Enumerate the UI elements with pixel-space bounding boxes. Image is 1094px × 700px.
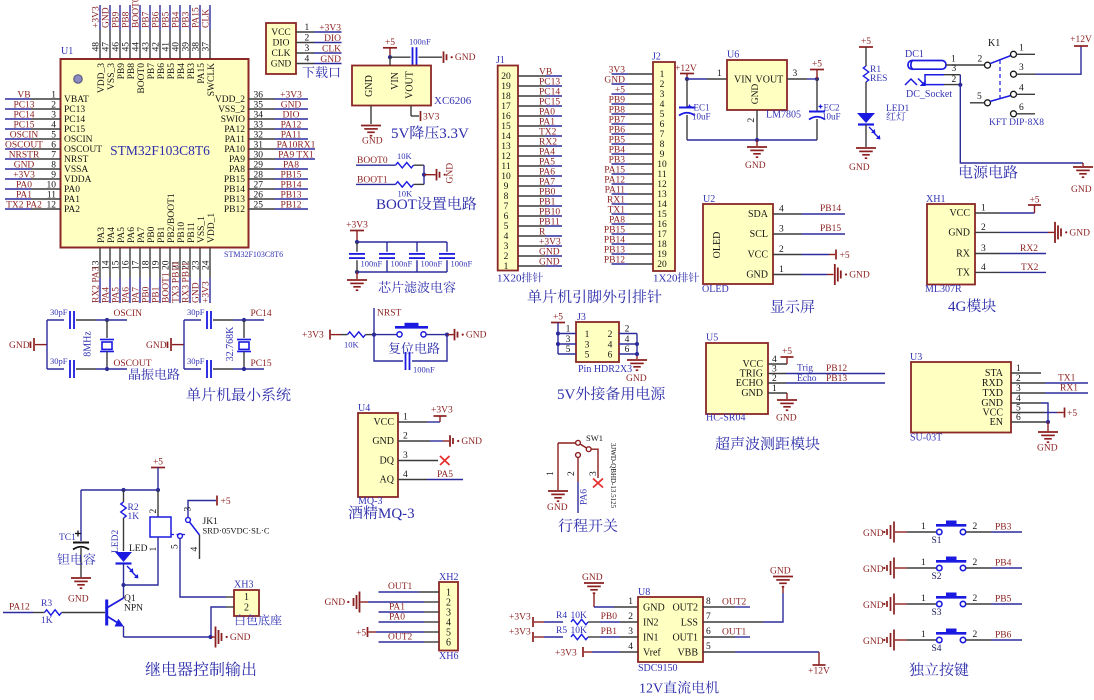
- node reset junction right: [445, 333, 449, 337]
- svg-text:+5: +5: [153, 458, 163, 468]
- svg-text:GND: GND: [863, 601, 884, 611]
- node crystal bottom: [105, 367, 109, 371]
- svg-text:10K: 10K: [344, 340, 360, 350]
- node J3 right 2: [635, 352, 639, 356]
- svg-text:2: 2: [504, 252, 509, 262]
- label reset circuit title: [389, 342, 401, 354]
- svg-text:GND: GND: [320, 55, 341, 65]
- U1 top pin 43 PB7 wire: [149, 5, 151, 30]
- svg-text:8: 8: [51, 161, 56, 171]
- node emitter bus: [208, 635, 212, 639]
- svg-text:HC-SR04: HC-SR04: [706, 413, 745, 424]
- capacitor 30pF bottom: [206, 360, 208, 378]
- svg-text:16: 16: [501, 112, 511, 122]
- svg-text:+3V3: +3V3: [280, 91, 302, 101]
- J1 pin 3 wire: [518, 245, 546, 247]
- U1 top pin 45 PB8 wire: [129, 5, 131, 30]
- node U6 output: [815, 77, 819, 81]
- svg-text:36: 36: [254, 91, 264, 101]
- J1 pin 5 wire: [518, 225, 546, 227]
- svg-text:1: 1: [566, 325, 571, 335]
- svg-text:15: 15: [111, 260, 121, 270]
- label power circuit title: [960, 165, 973, 178]
- svg-text:VDD_2: VDD_2: [215, 95, 245, 105]
- wire U5 TRIG to PB12: [768, 373, 786, 375]
- svg-text:DC1: DC1: [905, 49, 924, 60]
- svg-text:7: 7: [504, 202, 509, 212]
- svg-text:8: 8: [706, 597, 711, 607]
- wire gnd stem power circuit: [1082, 163, 1084, 166]
- svg-text:41: 41: [162, 42, 172, 52]
- svg-text:GND: GND: [582, 573, 603, 583]
- node J3 left 2: [556, 342, 560, 346]
- svg-text:GND: GND: [626, 374, 647, 384]
- svg-text:OUT1: OUT1: [722, 628, 747, 638]
- svg-text:PC15: PC15: [539, 98, 560, 108]
- svg-text:2: 2: [567, 471, 577, 476]
- download port pin 3 wire: [296, 52, 314, 54]
- svg-text:1: 1: [921, 630, 926, 640]
- U1 right pin 36 VDD_2 wire: [249, 98, 276, 100]
- svg-text:VIN: VIN: [734, 75, 752, 86]
- svg-text:5: 5: [504, 222, 509, 232]
- svg-text:VSS_1: VSS_1: [197, 216, 207, 243]
- U1 bottom pin 14 PA4 wire: [109, 248, 111, 279]
- resistor R_reset 10K: [341, 334, 348, 336]
- wire U8 OUT1: [703, 636, 735, 638]
- label relay control title: [145, 662, 160, 676]
- svg-text:PA5: PA5: [437, 470, 453, 480]
- svg-text:VCC: VCC: [747, 250, 768, 261]
- J1 pin 2 wire: [518, 255, 546, 257]
- svg-text:U4: U4: [358, 403, 370, 414]
- svg-text:11: 11: [47, 191, 56, 201]
- download port pin 1 wire: [296, 31, 314, 33]
- svg-text:1: 1: [1019, 44, 1024, 54]
- wire JK1 pin5 to XH3: [180, 538, 226, 597]
- svg-text:7: 7: [706, 612, 711, 622]
- svg-text:OUT2: OUT2: [672, 603, 698, 614]
- svg-text:3: 3: [589, 471, 599, 476]
- J2 pin 17 wire: [628, 233, 653, 235]
- J2 pin 13 wire: [628, 193, 653, 195]
- svg-text:14: 14: [101, 260, 111, 270]
- ground sideways at boot: [436, 169, 438, 181]
- svg-text:PB4: PB4: [609, 146, 626, 156]
- svg-text:15: 15: [657, 210, 667, 220]
- svg-text:SCL: SCL: [750, 229, 768, 240]
- U1 left pin 8 VSSA wire: [5, 168, 31, 170]
- svg-text:RX2: RX2: [539, 138, 557, 148]
- svg-text:RES: RES: [870, 74, 887, 84]
- svg-text:DIO: DIO: [324, 34, 341, 44]
- svg-text:XH1: XH1: [926, 194, 945, 205]
- svg-text:NRST: NRST: [377, 309, 401, 319]
- svg-text:37: 37: [202, 42, 212, 52]
- J2 pin 14 wire: [628, 203, 653, 205]
- ground hatch at U6: [747, 146, 767, 148]
- svg-text:+3V3: +3V3: [201, 281, 211, 303]
- svg-text:GND: GND: [863, 637, 884, 647]
- svg-text:4: 4: [981, 263, 986, 273]
- svg-text:RX2: RX2: [1020, 244, 1038, 254]
- svg-text:2: 2: [779, 245, 784, 255]
- svg-text:RX1: RX1: [1060, 384, 1078, 394]
- svg-text:27: 27: [254, 181, 264, 191]
- label chip filter caps: [379, 281, 391, 293]
- svg-text:6: 6: [608, 351, 613, 361]
- wire XH3 pin2: [226, 606, 234, 608]
- svg-text:OUT1: OUT1: [388, 582, 413, 592]
- svg-text:8: 8: [504, 192, 509, 202]
- svg-text:VDD_3: VDD_3: [97, 63, 107, 93]
- wire SW1 pin2 to PA6: [577, 457, 579, 481]
- U1 right pin 28 PB15 wire: [249, 178, 276, 180]
- svg-text:PA6: PA6: [121, 287, 131, 303]
- svg-text:TX3 PB10: TX3 PB10: [171, 262, 181, 303]
- wire U4 DQ no-connect: [398, 460, 438, 462]
- power +5 at U3 VCC: [1011, 412, 1045, 414]
- svg-text:J2: J2: [652, 52, 661, 63]
- resistor R3 1K: [45, 610, 62, 615]
- ground hatch at LED1: [856, 147, 876, 149]
- label ultrasonic title: [715, 436, 729, 450]
- svg-text:PB7: PB7: [147, 63, 157, 80]
- svg-text:30pF: 30pF: [50, 356, 68, 366]
- connector P1 download port box: [266, 23, 296, 74]
- svg-text:GND: GND: [325, 598, 346, 608]
- svg-text:BOOT0: BOOT0: [132, 0, 142, 28]
- button S1: [907, 531, 936, 533]
- svg-text:PB9: PB9: [112, 11, 122, 28]
- wire U3 GND to EN: [1011, 402, 1041, 404]
- svg-text:PB2/BOOT1: PB2/BOOT1: [167, 193, 177, 243]
- svg-text:PB3: PB3: [187, 63, 197, 80]
- wire S4 to PB6: [966, 639, 991, 641]
- svg-text:3: 3: [779, 225, 784, 235]
- svg-text:+3V3: +3V3: [509, 628, 531, 638]
- svg-text:4: 4: [625, 335, 630, 345]
- svg-text:DC_Socket: DC_Socket: [906, 89, 952, 100]
- svg-text:XH2: XH2: [439, 572, 458, 583]
- svg-text:PB0: PB0: [141, 286, 151, 303]
- svg-text:U3: U3: [910, 352, 922, 363]
- J1 pin 9 wire: [518, 185, 546, 187]
- wire XH2 pin1 OUT1: [420, 591, 440, 593]
- svg-text:PB6: PB6: [152, 11, 162, 28]
- svg-text:PB8: PB8: [127, 63, 137, 80]
- ground sideways at XH2: [359, 592, 361, 613]
- svg-text:PB12: PB12: [604, 256, 625, 266]
- svg-text:PA9: PA9: [229, 155, 245, 165]
- svg-text:1: 1: [305, 23, 310, 33]
- svg-text:PA2: PA2: [64, 205, 80, 215]
- capacitor C1 100nF filter: [356, 242, 358, 252]
- wire U6 bottom bus: [687, 139, 817, 141]
- svg-text:5: 5: [660, 110, 665, 120]
- U1 bottom pin 17 PA7 wire: [139, 248, 141, 279]
- label white socket: [236, 614, 245, 625]
- svg-text:LSS: LSS: [681, 618, 698, 629]
- svg-text:VSS_3: VSS_3: [107, 63, 117, 90]
- node U6 gnd: [755, 138, 759, 142]
- svg-text:PA12: PA12: [224, 125, 245, 135]
- svg-text:4: 4: [660, 100, 665, 110]
- svg-text:1: 1: [504, 262, 509, 272]
- U1 top pin 40 PB4 wire: [179, 5, 181, 30]
- svg-text:TX1: TX1: [1058, 374, 1076, 384]
- svg-text:+3V3: +3V3: [431, 406, 453, 416]
- svg-text:17: 17: [501, 102, 511, 112]
- wire U6 pin2 stem: [756, 110, 758, 140]
- svg-text:3: 3: [585, 341, 590, 351]
- U1 top pin 37 SWCLK wire: [209, 5, 211, 30]
- svg-text:PA1: PA1: [539, 118, 555, 128]
- svg-text:OSCOUT: OSCOUT: [64, 145, 102, 155]
- U1 right pin 29 PA8 wire: [249, 168, 276, 170]
- svg-text:6: 6: [504, 212, 509, 222]
- svg-text:PA5: PA5: [539, 158, 555, 168]
- wire DC1 pin3: [944, 74, 960, 76]
- wire BOOT1: [356, 183, 396, 185]
- wire GND pin of XC6206: [370, 106, 372, 125]
- svg-text:PA12: PA12: [281, 121, 302, 131]
- node VIN junction: [388, 55, 392, 59]
- U1 top pin 39 PB3 wire: [189, 5, 191, 30]
- svg-text:KFT DIP·8X8: KFT DIP·8X8: [989, 118, 1044, 128]
- svg-text:NPN: NPN: [124, 604, 143, 614]
- crystal 8MHz: [106, 320, 108, 338]
- svg-text:30: 30: [254, 151, 264, 161]
- svg-text:GND: GND: [741, 388, 763, 399]
- svg-text:Q1: Q1: [124, 594, 136, 604]
- J2 pin 16 wire: [628, 223, 653, 225]
- U1 bottom pin 13 PA3 wire: [99, 248, 101, 279]
- J3 right pin 2 wire: [619, 333, 637, 335]
- ground sideways at U4 GND: [398, 440, 430, 442]
- node reset junction left: [372, 333, 376, 337]
- connector J1 1x20 header box: [498, 66, 518, 271]
- svg-text:1: 1: [546, 471, 556, 476]
- node filter bottom: [355, 270, 359, 274]
- svg-text:4: 4: [305, 55, 310, 65]
- svg-text:IN1: IN1: [643, 633, 659, 644]
- svg-text:+5: +5: [812, 60, 822, 70]
- wire boot junction vertical: [423, 165, 425, 184]
- U1 top pin 42 PB6 wire: [159, 5, 161, 30]
- connector XH2 box: [439, 582, 458, 651]
- svg-text:1: 1: [51, 91, 56, 101]
- wire crystal top branch: [184, 319, 201, 321]
- wire U6 gnd stem: [756, 140, 758, 146]
- svg-text:TX2 PA2: TX2 PA2: [6, 201, 42, 211]
- svg-text:GND: GND: [281, 101, 302, 111]
- svg-text:48: 48: [92, 42, 102, 52]
- svg-text:DIO: DIO: [283, 111, 300, 121]
- svg-text:+3V3: +3V3: [319, 24, 341, 34]
- svg-text:GND: GND: [372, 436, 394, 447]
- ground sideways at U2 GND: [802, 274, 828, 276]
- U1 bottom pin 20 PB2/BOOT1 wire: [169, 248, 171, 279]
- wire U8 LSS to gnd: [703, 621, 763, 623]
- svg-text:3V3: 3V3: [609, 66, 626, 76]
- svg-text:40: 40: [172, 42, 182, 52]
- wire crystal left bus: [46, 320, 48, 369]
- wire DC1 pin1 to K1: [946, 64, 985, 66]
- svg-text:AQ: AQ: [380, 475, 395, 486]
- svg-text:VIN: VIN: [390, 72, 401, 90]
- svg-text:PB0: PB0: [539, 188, 556, 198]
- svg-text:5: 5: [171, 544, 181, 549]
- svg-text:3: 3: [184, 507, 194, 512]
- resistor R_boot1 10K: [396, 182, 414, 187]
- resistor R5 10K: [571, 634, 588, 639]
- node LED2 collector: [121, 583, 125, 587]
- capacitor 100nF reset: [374, 335, 403, 361]
- U1 top pin 38 PA15 wire: [199, 5, 201, 30]
- wire pin3 corner: [959, 75, 961, 85]
- svg-text:CLK: CLK: [272, 49, 291, 59]
- svg-text:9: 9: [51, 171, 56, 181]
- svg-text:PA11: PA11: [225, 135, 246, 145]
- svg-text:4: 4: [628, 642, 633, 652]
- svg-text:19: 19: [501, 82, 511, 92]
- svg-text:3: 3: [566, 335, 571, 345]
- svg-text:28: 28: [254, 171, 264, 181]
- svg-text:GND: GND: [751, 84, 761, 105]
- svg-text:PB1: PB1: [539, 198, 556, 208]
- svg-text:PB6: PB6: [609, 126, 626, 136]
- wire DC1 pin2: [944, 84, 960, 86]
- svg-text:12: 12: [47, 201, 57, 211]
- wire VIN stem: [389, 57, 391, 65]
- svg-text:18: 18: [141, 260, 151, 270]
- svg-text:PB6: PB6: [157, 63, 167, 80]
- module U5 HC-SR04 box: [706, 343, 768, 414]
- svg-text:1: 1: [951, 55, 956, 65]
- J2 pin 15 wire: [628, 213, 653, 215]
- svg-text:VDDA: VDDA: [64, 175, 92, 185]
- ground sideways at XC6206 input: [443, 51, 445, 63]
- svg-text:PB15: PB15: [820, 224, 841, 234]
- svg-text:1K: 1K: [128, 512, 140, 522]
- wire U6 pin3 out: [787, 78, 807, 80]
- svg-text:100nF: 100nF: [409, 37, 431, 47]
- U1 top pin 47 VSS_3 wire: [109, 5, 111, 30]
- svg-text:19: 19: [151, 260, 161, 270]
- svg-text:3: 3: [305, 44, 310, 54]
- svg-text:34: 34: [254, 111, 264, 121]
- svg-text:17: 17: [131, 260, 141, 270]
- label independent buttons title: [909, 662, 923, 676]
- J2 pin 11 wire: [628, 173, 653, 175]
- capacitor 30pF bottom: [69, 360, 71, 378]
- svg-text:SW1: SW1: [586, 433, 603, 443]
- svg-text:PB12: PB12: [826, 364, 847, 374]
- svg-text:PB13: PB13: [826, 374, 847, 384]
- svg-text:Vref: Vref: [643, 648, 661, 659]
- svg-text:GND: GND: [466, 331, 487, 341]
- svg-text:PC13: PC13: [13, 101, 34, 111]
- svg-text:PB10: PB10: [177, 222, 187, 243]
- svg-text:PB4: PB4: [177, 63, 187, 80]
- capacitor 100nF at XC6206 input: [412, 47, 414, 67]
- svg-text:4: 4: [51, 121, 56, 131]
- svg-text:9: 9: [660, 150, 665, 160]
- svg-text:10: 10: [501, 172, 511, 182]
- power +3V3 at U4 VCC: [398, 421, 427, 423]
- svg-text:GND: GND: [102, 7, 112, 28]
- svg-text:PA6: PA6: [127, 227, 137, 243]
- J3 left pin 1 wire: [558, 333, 576, 335]
- svg-text:GND: GND: [271, 60, 292, 70]
- svg-text:3: 3: [952, 64, 957, 74]
- svg-text:39: 39: [182, 42, 192, 52]
- svg-text:K1: K1: [988, 38, 1000, 49]
- wire S1 to PB3: [966, 531, 991, 533]
- svg-text:PB5: PB5: [167, 63, 177, 80]
- svg-text:MQ-3: MQ-3: [378, 506, 415, 522]
- node boot junction: [422, 173, 426, 177]
- svg-text:Pin HDR2X3: Pin HDR2X3: [578, 364, 632, 375]
- svg-text:PC15: PC15: [251, 359, 272, 369]
- capacitor C4 100nF filter: [446, 242, 448, 252]
- svg-text:EN: EN: [990, 417, 1003, 428]
- svg-text:6: 6: [660, 120, 665, 130]
- svg-text:GND: GND: [849, 163, 870, 173]
- svg-text:100nF: 100nF: [361, 259, 383, 269]
- label alcohol MQ-3 title: [348, 506, 362, 520]
- wire U5 GND: [768, 392, 787, 394]
- ground hatch at filter caps: [347, 279, 367, 281]
- svg-text:PC14: PC14: [251, 309, 272, 319]
- svg-text:PC13: PC13: [64, 105, 85, 115]
- U1 right pin 34 SWIO wire: [249, 118, 276, 120]
- wire XH2 pin6 OUT2: [424, 641, 439, 643]
- svg-text:PB1: PB1: [151, 286, 161, 303]
- wire filter top bus: [357, 241, 447, 243]
- svg-text:2: 2: [660, 80, 665, 90]
- wire boot1 res to corner: [414, 183, 425, 185]
- svg-text:30pF: 30pF: [187, 356, 205, 366]
- svg-text:GND: GND: [746, 270, 768, 281]
- J3 left pin 3 wire: [558, 343, 576, 345]
- svg-text:PA8: PA8: [229, 165, 245, 175]
- ground sideways at relay: [215, 627, 217, 648]
- svg-text:VBB: VBB: [677, 648, 698, 659]
- J2 pin 2 wire: [628, 83, 653, 85]
- svg-text:PB14: PB14: [604, 236, 625, 246]
- node DC out: [958, 83, 962, 87]
- ground hatch at U3: [1038, 431, 1058, 433]
- svg-text:PB0: PB0: [601, 612, 618, 622]
- svg-text:GND: GND: [539, 248, 560, 258]
- capacitor TC1 tantalum: [80, 490, 82, 541]
- svg-text:OSCIN: OSCIN: [64, 135, 93, 145]
- svg-text:+5: +5: [861, 37, 871, 47]
- wire filter gnd stem: [356, 272, 358, 279]
- svg-text:+5: +5: [221, 497, 231, 507]
- J2 pin 1 wire: [628, 73, 653, 75]
- svg-text:16: 16: [657, 220, 667, 230]
- svg-text:GND: GND: [446, 163, 456, 184]
- svg-text:R4: R4: [556, 611, 567, 621]
- svg-text:XC6206: XC6206: [434, 95, 472, 107]
- module U2 OLED box: [703, 204, 773, 284]
- svg-text:NRST: NRST: [64, 155, 88, 165]
- svg-text:PB3: PB3: [182, 11, 192, 28]
- U1 left pin 4 PC15 wire: [5, 128, 31, 130]
